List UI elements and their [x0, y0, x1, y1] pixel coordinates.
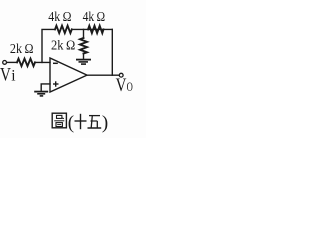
- op-amp plus sign: [53, 81, 59, 86]
- svg-text:2k Ω: 2k Ω: [51, 39, 75, 54]
- svg-text:4k Ω: 4k Ω: [48, 10, 71, 25]
- svg-text:i: i: [11, 67, 16, 84]
- wire: plus input to ground: [41, 84, 50, 91]
- wire: input resistor to op-amp minus input: [35, 61, 50, 63]
- caption glyph 十: [75, 120, 87, 122]
- node Vo terminal circle: [119, 73, 123, 77]
- svg-text:V: V: [116, 75, 127, 96]
- wire: stem to ground: [83, 54, 85, 59]
- resistor R 4k (second, top): [88, 26, 104, 33]
- svg-text:4k Ω: 4k Ω: [83, 10, 106, 25]
- wire: input from Vi node: [7, 61, 17, 63]
- svg-text:(: (: [68, 113, 74, 134]
- svg-text:V: V: [0, 64, 11, 85]
- svg-text:O: O: [127, 79, 133, 94]
- wire: top middle segment: [72, 28, 113, 30]
- wire: stem from top wire down to middle resistor: [83, 29, 85, 38]
- ground (below middle resistor): [76, 60, 91, 65]
- caption 圖(十五): [52, 113, 101, 129]
- node Vi terminal circle: [3, 61, 7, 65]
- resistor R 2k (input, horizontal): [17, 59, 35, 66]
- svg-text:): ): [102, 113, 108, 134]
- resistor R 2k (middle, vertical): [80, 38, 87, 54]
- wire: feedback left vertical + top-left segment: [42, 29, 55, 62]
- wire: output from op-amp apex to Vo node: [87, 74, 119, 76]
- caption glyph 圖: [52, 113, 66, 128]
- resistor R 4k (first, top): [55, 26, 72, 33]
- wire: right vertical from top to output: [111, 29, 113, 75]
- op-amp U1 triangle: [50, 58, 87, 92]
- op-amp minus sign: [53, 62, 58, 64]
- svg-text:2k Ω: 2k Ω: [10, 42, 34, 57]
- ground (plus input): [34, 92, 48, 96]
- caption glyph 五: [89, 115, 100, 117]
